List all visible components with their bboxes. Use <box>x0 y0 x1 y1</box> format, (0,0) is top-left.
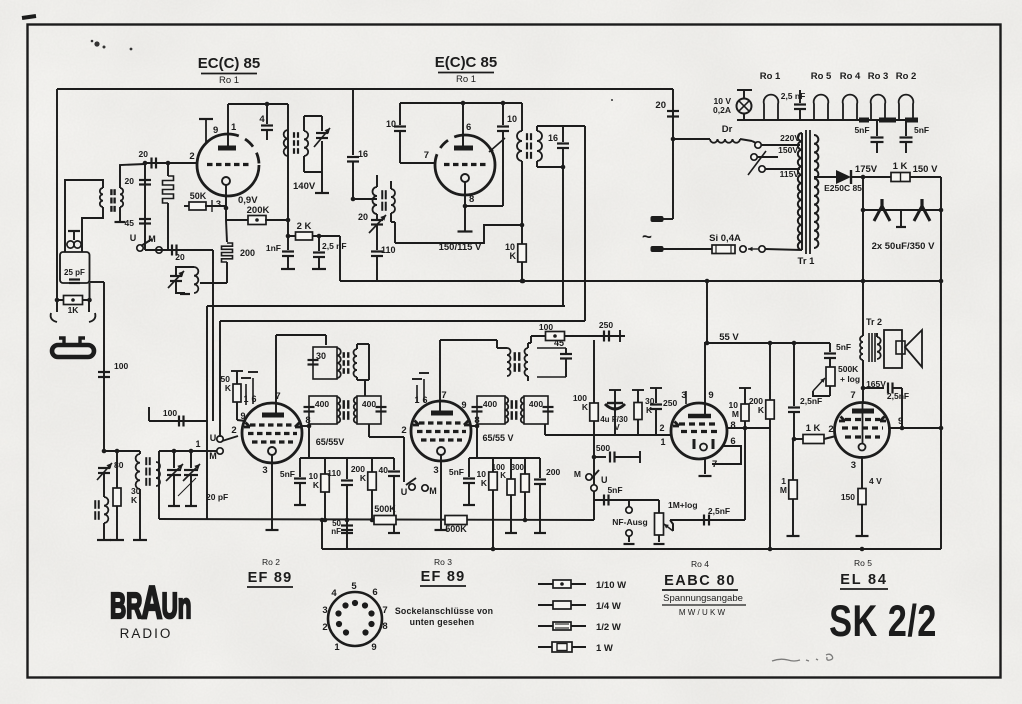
wire elko row <box>863 209 941 211</box>
wire V3 cathode cluster rail <box>300 457 394 459</box>
capacitor 20 on node <box>139 179 151 181</box>
wire box stubs to 1K row <box>89 283 91 300</box>
V5 anode bar <box>688 414 711 419</box>
svg-text:4: 4 <box>259 114 265 125</box>
wire 55V rail <box>704 342 830 344</box>
svg-text:SK 2/2: SK 2/2 <box>829 597 937 646</box>
V2 grid row <box>444 163 486 166</box>
svg-text:K: K <box>131 495 138 505</box>
V2 pin7 grid line <box>400 162 436 164</box>
wire IFT2 to 10K <box>521 161 523 281</box>
capacitor 5nF heater 1 <box>876 120 878 136</box>
capacitor 45 on node <box>139 218 151 220</box>
svg-text:400: 400 <box>483 399 497 409</box>
svg-text:2,5 nF: 2,5 nF <box>781 91 806 101</box>
svg-text:500K: 500K <box>445 524 467 534</box>
svg-text:U: U <box>601 475 608 485</box>
svg-text:3: 3 <box>851 460 856 471</box>
wire box to tuner line <box>90 281 105 283</box>
svg-text:20: 20 <box>175 252 185 262</box>
resistor 1K smoothing <box>891 173 910 182</box>
V3 pin7 wire to IFT <box>275 335 277 414</box>
svg-text:Dr: Dr <box>722 124 733 135</box>
IF transformer V1 secondary <box>304 131 308 156</box>
svg-text:300: 300 <box>511 463 525 472</box>
svg-text:100: 100 <box>539 322 553 332</box>
svg-text:1 K: 1 K <box>806 423 821 434</box>
wire 594 column <box>593 340 595 403</box>
wire pin8 to cap10 <box>465 205 503 207</box>
wire tuner node to 30K <box>104 450 140 452</box>
tube V3 EF89 envelope <box>242 403 302 463</box>
wire vertical 563 to IF bus <box>562 167 564 306</box>
wire Tr1 secondary to diode <box>814 176 836 178</box>
svg-text:K: K <box>360 473 367 483</box>
wire cathode to oscillator <box>226 262 228 283</box>
svg-text:E250C 85: E250C 85 <box>824 183 862 193</box>
svg-text:80: 80 <box>114 460 124 470</box>
potentiometer 500K+log tone <box>826 367 835 386</box>
V6 inner pin7 wire <box>862 404 864 443</box>
svg-text:25 pF: 25 pF <box>64 268 85 277</box>
IF transformer V1 primary <box>284 130 288 156</box>
transformer Tr1 secondary <box>814 135 818 248</box>
svg-text:RADIO: RADIO <box>120 626 173 641</box>
svg-text:M: M <box>429 486 437 496</box>
svg-text:K: K <box>481 478 488 488</box>
wire AVC loop down <box>744 428 746 520</box>
wire corner 306 to tuner <box>206 306 208 421</box>
junction grid node <box>143 161 148 166</box>
capacitor 2.5nF heater <box>799 90 801 103</box>
svg-text:175V: 175V <box>855 164 878 175</box>
resistor 10K anode <box>518 244 527 262</box>
tube socket diagram circle <box>328 592 382 646</box>
svg-text:1 W: 1 W <box>596 643 613 654</box>
svg-text:500: 500 <box>596 443 610 453</box>
resistor 200K V3 <box>371 458 373 472</box>
svg-text:100: 100 <box>114 361 128 371</box>
resistor 1K antenna <box>57 299 90 301</box>
wire 175V vertical <box>862 177 864 281</box>
switch U/OM V4 <box>409 484 415 490</box>
V6 cathode <box>859 444 866 451</box>
capacitor 110 V3 <box>346 458 348 479</box>
capacitor 5nF V3 <box>299 458 301 477</box>
svg-text:65/55 V: 65/55 V <box>482 433 513 443</box>
svg-text:1/4 W: 1/4 W <box>596 601 621 612</box>
svg-text:EC(C) 85: EC(C) 85 <box>198 55 261 72</box>
resistor zigzag grid leak <box>166 161 171 166</box>
svg-text:8: 8 <box>469 194 474 205</box>
potentiometer 1M+log <box>658 500 660 513</box>
variable capacitor AM tuning 2 <box>190 451 192 468</box>
svg-text:EF 89: EF 89 <box>248 570 293 586</box>
FM IFT2 primary vertical <box>521 103 523 131</box>
svg-text:5: 5 <box>351 581 357 592</box>
legend 1/4W resistor <box>538 604 586 606</box>
svg-text:100: 100 <box>163 408 177 418</box>
wire screen column 309 <box>308 424 310 458</box>
wire 213 vertical to gang <box>212 250 214 421</box>
capacitor 2.5nF coupling <box>793 343 795 406</box>
V5 grid row1 <box>679 422 719 425</box>
wire B+ bus 281 <box>340 280 941 282</box>
heater loop Ro4 <box>843 95 858 120</box>
V5 pin9 wire <box>704 343 706 415</box>
svg-text:EF 89: EF 89 <box>421 569 466 585</box>
capacitor 110 osc <box>371 250 383 252</box>
svg-text:1M+log: 1M+log <box>668 500 698 510</box>
wire 140V anode supply vertical <box>287 104 289 236</box>
svg-text:115V: 115V <box>780 169 800 179</box>
svg-text:1 K: 1 K <box>893 161 908 172</box>
wire 150V vertical <box>940 177 942 549</box>
resistor 30K <box>116 451 118 488</box>
V3 anode bar <box>262 413 284 418</box>
svg-text:unten gesehen: unten gesehen <box>410 617 475 627</box>
choke Dr <box>673 138 710 140</box>
capacitor 200 V4 <box>539 458 541 478</box>
svg-text:1: 1 <box>195 439 200 449</box>
svg-text:Ro 3: Ro 3 <box>868 71 889 82</box>
svg-text:200: 200 <box>240 248 255 258</box>
voltage selector contacts <box>755 142 761 148</box>
legend 1/10W resistor <box>538 583 586 585</box>
svg-text:M: M <box>574 469 581 479</box>
resistor 200 cathode zigzag <box>226 220 227 242</box>
svg-text:K: K <box>313 480 320 490</box>
faint pencil mark <box>772 654 833 661</box>
svg-text:K: K <box>582 402 589 412</box>
svg-text:2: 2 <box>189 151 194 162</box>
wire IF feed bus 306 <box>207 305 565 307</box>
V1 pin2 grid line <box>145 162 197 164</box>
tube V5 EABC80 envelope <box>671 403 727 459</box>
V5 diode plates <box>693 439 696 449</box>
svg-text:1: 1 <box>334 642 340 653</box>
svg-text:500K: 500K <box>838 364 859 374</box>
UKW antenna transformer loop <box>65 180 103 252</box>
resistor 200K AVC <box>769 343 771 400</box>
junction tuner node <box>102 449 107 454</box>
wire coupling 100 line <box>148 407 150 421</box>
svg-text:2: 2 <box>401 425 406 436</box>
svg-text:U: U <box>130 233 137 243</box>
AM IFT 400 box2 <box>354 397 357 423</box>
svg-text:M W / U K W: M W / U K W <box>679 608 726 617</box>
wire 45 cap loop <box>537 347 566 349</box>
V1 anode plate <box>218 146 236 151</box>
V1 cathode <box>222 177 230 185</box>
svg-text:150: 150 <box>841 492 855 502</box>
svg-text:45: 45 <box>125 218 135 228</box>
inductor below trimmer 80 <box>104 497 108 523</box>
svg-text:5nF: 5nF <box>914 125 929 135</box>
resistor 1M grid leak <box>792 439 794 480</box>
oscillator coil V1 <box>194 267 198 293</box>
V1 cathode wire <box>225 185 227 220</box>
wire grid node vertical <box>144 163 146 250</box>
wire V4 cathode cluster rail <box>469 457 540 459</box>
capacitor 20 mains <box>667 110 679 112</box>
svg-text:2,5nF: 2,5nF <box>800 396 822 406</box>
resistor 200K with dot <box>226 219 249 221</box>
wire 140V line to 1nF <box>287 236 289 250</box>
wire V2 top line <box>400 102 522 104</box>
V5 cathode <box>700 444 707 451</box>
wire 2K row <box>286 234 291 239</box>
resistor 100 B+ with dot <box>546 332 565 341</box>
svg-text:U: U <box>401 487 408 497</box>
svg-text:55 V: 55 V <box>719 332 739 343</box>
V3 grid rows <box>250 423 295 426</box>
rectifier diode E250C85 <box>836 170 851 184</box>
ground left tuner 1 <box>97 539 111 541</box>
V4 pin1 pin6 stubs <box>416 385 418 403</box>
switch U/M AF <box>586 474 592 480</box>
wire to antenna plug hooks <box>56 300 58 312</box>
svg-text:250: 250 <box>663 398 677 408</box>
wire top supply bus <box>57 88 673 90</box>
capacitor 5nF heater 2 <box>905 120 907 136</box>
capacitor 10 right of V2 <box>502 103 504 125</box>
tube V4 EF89 envelope <box>411 401 471 461</box>
svg-text:9: 9 <box>371 642 376 653</box>
svg-text:7: 7 <box>382 605 387 616</box>
resistor 10M <box>744 388 746 404</box>
svg-text:20: 20 <box>358 212 368 222</box>
selector taps to Tr1 <box>761 144 800 146</box>
wire left tuner vertical 104 <box>103 282 105 451</box>
heater loop Ro2 <box>899 95 914 120</box>
tube V2 E(C)C85 envelope <box>435 135 495 195</box>
thick rail segments <box>859 118 869 123</box>
wire screen column 477 <box>476 424 478 458</box>
resistor 50K <box>184 205 190 207</box>
UKW transformer core <box>110 189 112 195</box>
wire AF out row <box>594 499 659 501</box>
resistor 500K AGC 1 <box>374 516 396 525</box>
V5 grid row2 <box>681 430 717 433</box>
capacitor 20 grid V1 <box>150 158 152 169</box>
IFT 10.7MHz 30 box <box>313 347 337 379</box>
V4 grid rows <box>419 421 464 424</box>
svg-text:2,5 nF: 2,5 nF <box>322 241 347 251</box>
AM IFT 400 box1 <box>309 396 337 424</box>
svg-text:Si 0,4A: Si 0,4A <box>709 233 741 244</box>
svg-text:400: 400 <box>315 399 329 409</box>
svg-text:4: 4 <box>331 588 337 599</box>
resistor 10K V4 <box>492 458 494 472</box>
svg-text:20: 20 <box>139 149 149 159</box>
svg-text:2: 2 <box>659 423 664 433</box>
wire heater rail <box>737 119 918 121</box>
ground 30K <box>110 539 124 541</box>
svg-text:Sockelanschlüsse von: Sockelanschlüsse von <box>395 606 493 616</box>
switch U/M band select EF89 <box>217 436 223 442</box>
antenna choke curls <box>67 241 74 248</box>
FM IFT2 secondary <box>537 131 542 161</box>
svg-text:~: ~ <box>642 227 652 246</box>
svg-text:20: 20 <box>655 100 666 111</box>
svg-text:M: M <box>780 485 787 495</box>
svg-text:9: 9 <box>708 390 713 401</box>
svg-text:Ro 1: Ro 1 <box>456 74 476 85</box>
svg-text:K: K <box>500 471 506 480</box>
svg-text:110: 110 <box>327 468 341 478</box>
wire IFT400 secondary to V4 grid <box>368 424 370 437</box>
svg-text:4 V: 4 V <box>869 476 882 486</box>
resistor 10K V3 <box>324 458 326 474</box>
svg-text:Ro 4: Ro 4 <box>840 71 861 82</box>
resistor 1K grid V6 <box>792 437 797 442</box>
inductor UKW antenna secondary <box>120 188 123 207</box>
wire secondary to V1 grid <box>120 164 145 188</box>
FM IFT3 box <box>507 348 511 376</box>
V3 pin1 pin6 stubs <box>245 384 247 405</box>
V5 pin8 AVC wire <box>727 427 770 429</box>
wire IFT4 secondary to detector line <box>544 424 546 435</box>
wire Tr2 to V6 pin7 <box>862 360 864 404</box>
svg-text:Ro 5: Ro 5 <box>854 558 872 568</box>
svg-text:5nF: 5nF <box>854 125 869 135</box>
svg-text:400: 400 <box>362 399 376 409</box>
svg-text:10: 10 <box>386 119 396 129</box>
svg-text:Ro 1: Ro 1 <box>219 75 239 86</box>
V2 pin6 stub <box>462 103 464 147</box>
V2 anode plate <box>454 146 473 151</box>
capacitor 2.5nF anode <box>863 387 884 389</box>
svg-text:Ro 2: Ro 2 <box>262 557 280 567</box>
V4 anode bar <box>431 411 453 416</box>
svg-text:7: 7 <box>441 390 446 401</box>
svg-text:3: 3 <box>433 465 438 476</box>
svg-text:2: 2 <box>828 424 833 435</box>
svg-text:3: 3 <box>216 199 221 210</box>
oscillator section wire 16 <box>352 89 354 155</box>
mains terminal lower <box>651 246 664 252</box>
V4 cathode <box>437 447 445 455</box>
resistor 100K V4 cathode <box>510 458 512 479</box>
V6 pin3 cathode wire <box>861 456 863 488</box>
svg-text:9: 9 <box>461 400 466 410</box>
tube V6 EL84 envelope <box>835 403 890 458</box>
svg-text:2: 2 <box>231 425 236 436</box>
svg-text:E(C)C 85: E(C)C 85 <box>435 54 498 71</box>
pilot lamp 10V 0.2A <box>737 89 752 91</box>
wire mains cap 20 vertical <box>672 89 674 219</box>
capacitor 20 switch <box>171 245 173 256</box>
capacitor 4pF <box>265 102 270 107</box>
svg-text:1K: 1K <box>68 305 80 315</box>
svg-text:400: 400 <box>529 399 543 409</box>
svg-text:V: V <box>614 423 620 432</box>
svg-text:20 pF: 20 pF <box>206 492 228 502</box>
speaker <box>876 333 878 337</box>
svg-text:10: 10 <box>507 114 517 124</box>
wire Tr1 bottom to fuse <box>765 249 802 250</box>
svg-text:K: K <box>225 383 232 393</box>
V3 cathode <box>268 447 276 455</box>
svg-text:3: 3 <box>262 465 267 476</box>
svg-text:Tr 2: Tr 2 <box>866 317 882 327</box>
svg-text:5nF: 5nF <box>280 469 295 479</box>
V5 pin3 stub <box>685 391 687 404</box>
resistor 500K AGC 2 <box>445 516 467 525</box>
svg-text:Ro 4: Ro 4 <box>691 559 709 569</box>
svg-text:nF: nF <box>331 527 341 536</box>
svg-text:U: U <box>210 433 217 443</box>
resistor 100K detector <box>590 403 599 421</box>
wire left vertical from top bus <box>56 89 58 300</box>
wire anode loop to 4pF and IFT <box>228 103 288 105</box>
svg-text:3: 3 <box>322 605 327 616</box>
svg-text:7: 7 <box>850 390 855 401</box>
heater loop Ro3 <box>871 95 886 120</box>
Tr1 core <box>805 130 807 254</box>
V6 anode bar <box>852 409 874 414</box>
V5 pin7 ground stub <box>704 459 706 474</box>
capacitor 50nF AGC <box>345 518 350 523</box>
svg-text:200K: 200K <box>247 205 270 216</box>
legend 1/2W resistor <box>538 625 586 627</box>
wire M contact line <box>207 450 217 452</box>
antenna plug hooks <box>51 313 57 322</box>
antenna input tick <box>68 230 80 232</box>
capacitor 5nF tone <box>829 343 831 352</box>
svg-text:6: 6 <box>372 587 377 598</box>
transformer Tr2 primary <box>862 281 864 336</box>
wire AGC line 520 <box>159 519 594 520</box>
ground ferrite coil <box>133 539 147 541</box>
wire ground bus 549 <box>322 548 941 550</box>
capacitor 100 coupling <box>178 416 180 427</box>
svg-text:K: K <box>510 251 517 261</box>
heater loop Ro1 <box>764 95 779 120</box>
inductor ferrite rod secondary <box>156 462 160 486</box>
ground V2 cathode <box>458 230 473 232</box>
NF-Ausg jacks <box>628 500 630 507</box>
capacitor 40 V3 <box>393 458 395 470</box>
V4 pin8 wire <box>471 425 477 427</box>
AM IFT4 400 box2 <box>521 397 524 423</box>
svg-text:Spannungsangabe: Spannungsangabe <box>663 593 743 604</box>
wire tuning gang left <box>158 451 160 519</box>
svg-text:0,2A: 0,2A <box>713 105 731 115</box>
svg-text:1: 1 <box>231 122 237 133</box>
resistor 50K screen <box>231 370 243 372</box>
wire B+ feed to 55V rail <box>706 281 708 343</box>
svg-text:1/2 W: 1/2 W <box>596 622 621 633</box>
svg-text:Ro 1: Ro 1 <box>760 71 781 82</box>
V2 cathode pin8 wire <box>464 182 466 231</box>
svg-text:110: 110 <box>381 245 396 255</box>
dipole antenna symbol <box>52 345 94 357</box>
V3 cathode pin3 wire <box>271 455 273 529</box>
wire diode to 175V node <box>851 176 891 178</box>
svg-text:M: M <box>209 451 217 461</box>
wire detector line components <box>614 390 616 435</box>
wire IFT2 secondary loop <box>536 126 538 131</box>
svg-text:150/115 V: 150/115 V <box>439 242 482 253</box>
svg-text:500K: 500K <box>374 504 396 514</box>
wire tuning gang top <box>159 450 207 452</box>
svg-text:5nF: 5nF <box>607 485 622 495</box>
capacitor 250 B+ <box>603 331 605 342</box>
capacitor 16 IFT2 <box>562 126 564 142</box>
V2 cathode <box>461 174 469 182</box>
